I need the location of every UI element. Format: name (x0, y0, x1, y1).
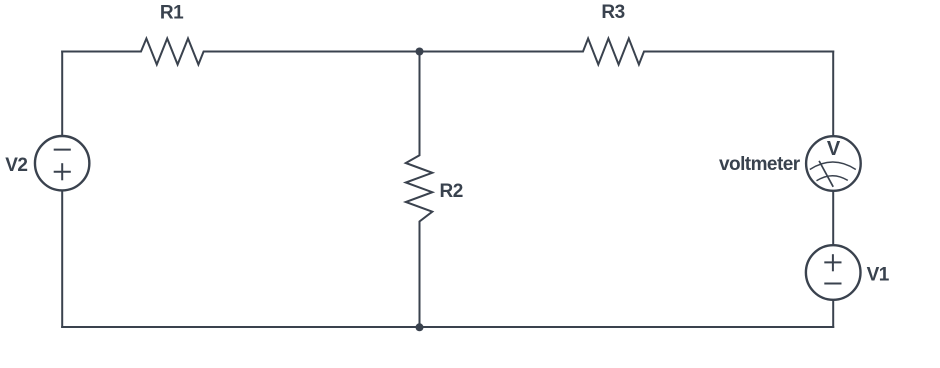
svg-text:V: V (827, 138, 841, 160)
svg-text:R3: R3 (601, 2, 624, 23)
svg-text:R2: R2 (440, 181, 463, 202)
svg-text:R1: R1 (160, 3, 184, 24)
svg-text:V1: V1 (867, 265, 890, 286)
svg-text:voltmeter: voltmeter (719, 154, 801, 175)
svg-text:V2: V2 (5, 155, 27, 176)
